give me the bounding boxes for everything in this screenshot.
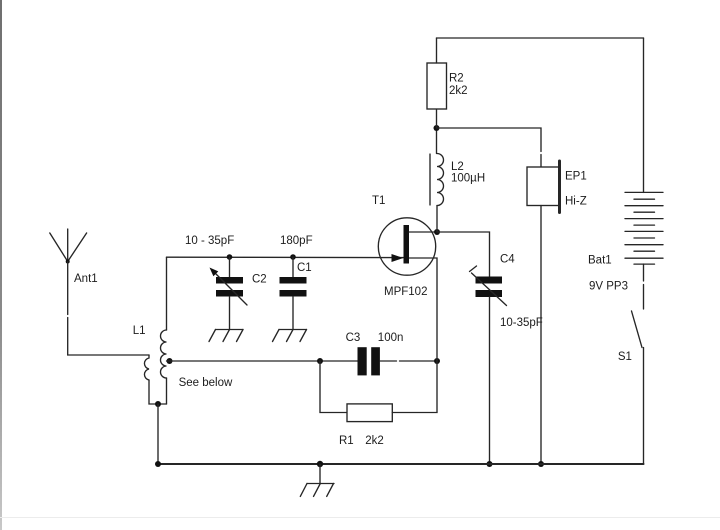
antenna Ant1 [50, 229, 87, 264]
svg-text:R1: R1 [339, 435, 354, 447]
wire R2 top [436, 38, 438, 63]
svg-text:2k2: 2k2 [449, 85, 468, 97]
ground (below C1) [273, 330, 307, 342]
wire gate rail left drop [166, 257, 168, 330]
wire battery to switch [643, 264, 645, 281]
svg-text:R2: R2 [449, 73, 464, 85]
svg-text:T1: T1 [372, 195, 385, 207]
wire antenna down [67, 262, 69, 315]
wire source to junction [409, 258, 437, 361]
wire battery top drop [643, 38, 645, 192]
svg-text:See below: See below [179, 377, 233, 389]
svg-text:C2: C2 [252, 274, 267, 286]
wire EP1 branch [437, 128, 542, 152]
svg-text:100µH: 100µH [451, 173, 485, 185]
switch S1 [632, 311, 643, 348]
capacitor C4 (trimmer) [470, 266, 507, 306]
inductor L2 100uH [430, 154, 444, 206]
svg-text:C4: C4 [500, 254, 515, 266]
svg-text:10-35pF: 10-35pF [500, 317, 543, 329]
wire L1 bottom to ground rail [157, 404, 159, 464]
node ground tap [317, 461, 323, 467]
svg-text:Hi-Z: Hi-Z [565, 196, 587, 208]
wire L1 secondary bottom [166, 378, 168, 404]
wire EP1 bottom [540, 206, 542, 465]
svg-text:L2: L2 [451, 161, 464, 173]
wire drain to L2 [436, 206, 438, 233]
svg-text:100n: 100n [378, 332, 404, 344]
svg-text:9V PP3: 9V PP3 [589, 281, 628, 293]
resistor R2 [427, 63, 447, 109]
node EP1 bottom rail junction [538, 461, 544, 467]
svg-text:C1: C1 [297, 262, 312, 274]
svg-text:EP1: EP1 [565, 171, 587, 183]
svg-text:S1: S1 [618, 351, 632, 363]
wire R2 bottom [436, 109, 438, 128]
wire C4 bottom [489, 297, 491, 464]
wire L1 primary bottom [149, 380, 167, 404]
battery Bat1 [625, 192, 663, 264]
inductor L1 secondary winding [161, 330, 167, 378]
node R2 bottom junction [434, 125, 440, 131]
node source junction [434, 358, 440, 364]
inductor L1 primary winding [144, 355, 149, 380]
page bottom faint line [0, 517, 720, 518]
svg-text:MPF102: MPF102 [384, 286, 427, 298]
node C1 top [290, 254, 296, 260]
ground (main) [300, 484, 334, 497]
wire R1 left leg [320, 361, 347, 413]
capacitor C2 (variable) [210, 257, 248, 330]
svg-text:2k2: 2k2 [365, 435, 384, 447]
transistor T1 MPF102 [378, 218, 435, 275]
svg-text:10 - 35pF: 10 - 35pF [185, 235, 234, 247]
node L1 tap [167, 358, 173, 364]
wire antenna to L1 primary [68, 354, 149, 356]
earpiece EP1 [527, 161, 560, 213]
wire switch to bottom rail [643, 348, 645, 465]
wire ground tap [319, 464, 321, 484]
ground (below C2) [209, 330, 243, 342]
wire gate rail [167, 256, 406, 258]
resistor R1 [347, 404, 392, 422]
svg-text:C3: C3 [346, 332, 361, 344]
node drain junction [434, 229, 440, 235]
svg-text:L1: L1 [133, 325, 146, 337]
wire tap rail [167, 360, 358, 362]
node C4 bottom rail junction [487, 461, 493, 467]
wire C3 right [380, 360, 397, 362]
wire bottom rail [158, 463, 644, 465]
svg-text:180pF: 180pF [280, 235, 313, 247]
wire top rail [437, 37, 644, 39]
wire drain [409, 231, 437, 233]
node C3 left junction [317, 358, 323, 364]
wire L2 top [436, 128, 438, 154]
wire drain to C4 [437, 232, 490, 277]
wire R1 right leg [392, 361, 437, 413]
node C2 top [227, 254, 233, 260]
svg-text:Ant1: Ant1 [74, 273, 98, 285]
capacitor C1 180pF [280, 257, 307, 330]
svg-text:Bat1: Bat1 [588, 255, 612, 267]
capacitor C3 100n [358, 347, 380, 375]
node bottom rail left end [155, 461, 161, 467]
page left border [0, 0, 2, 530]
node L1 bottom junction [155, 401, 161, 407]
